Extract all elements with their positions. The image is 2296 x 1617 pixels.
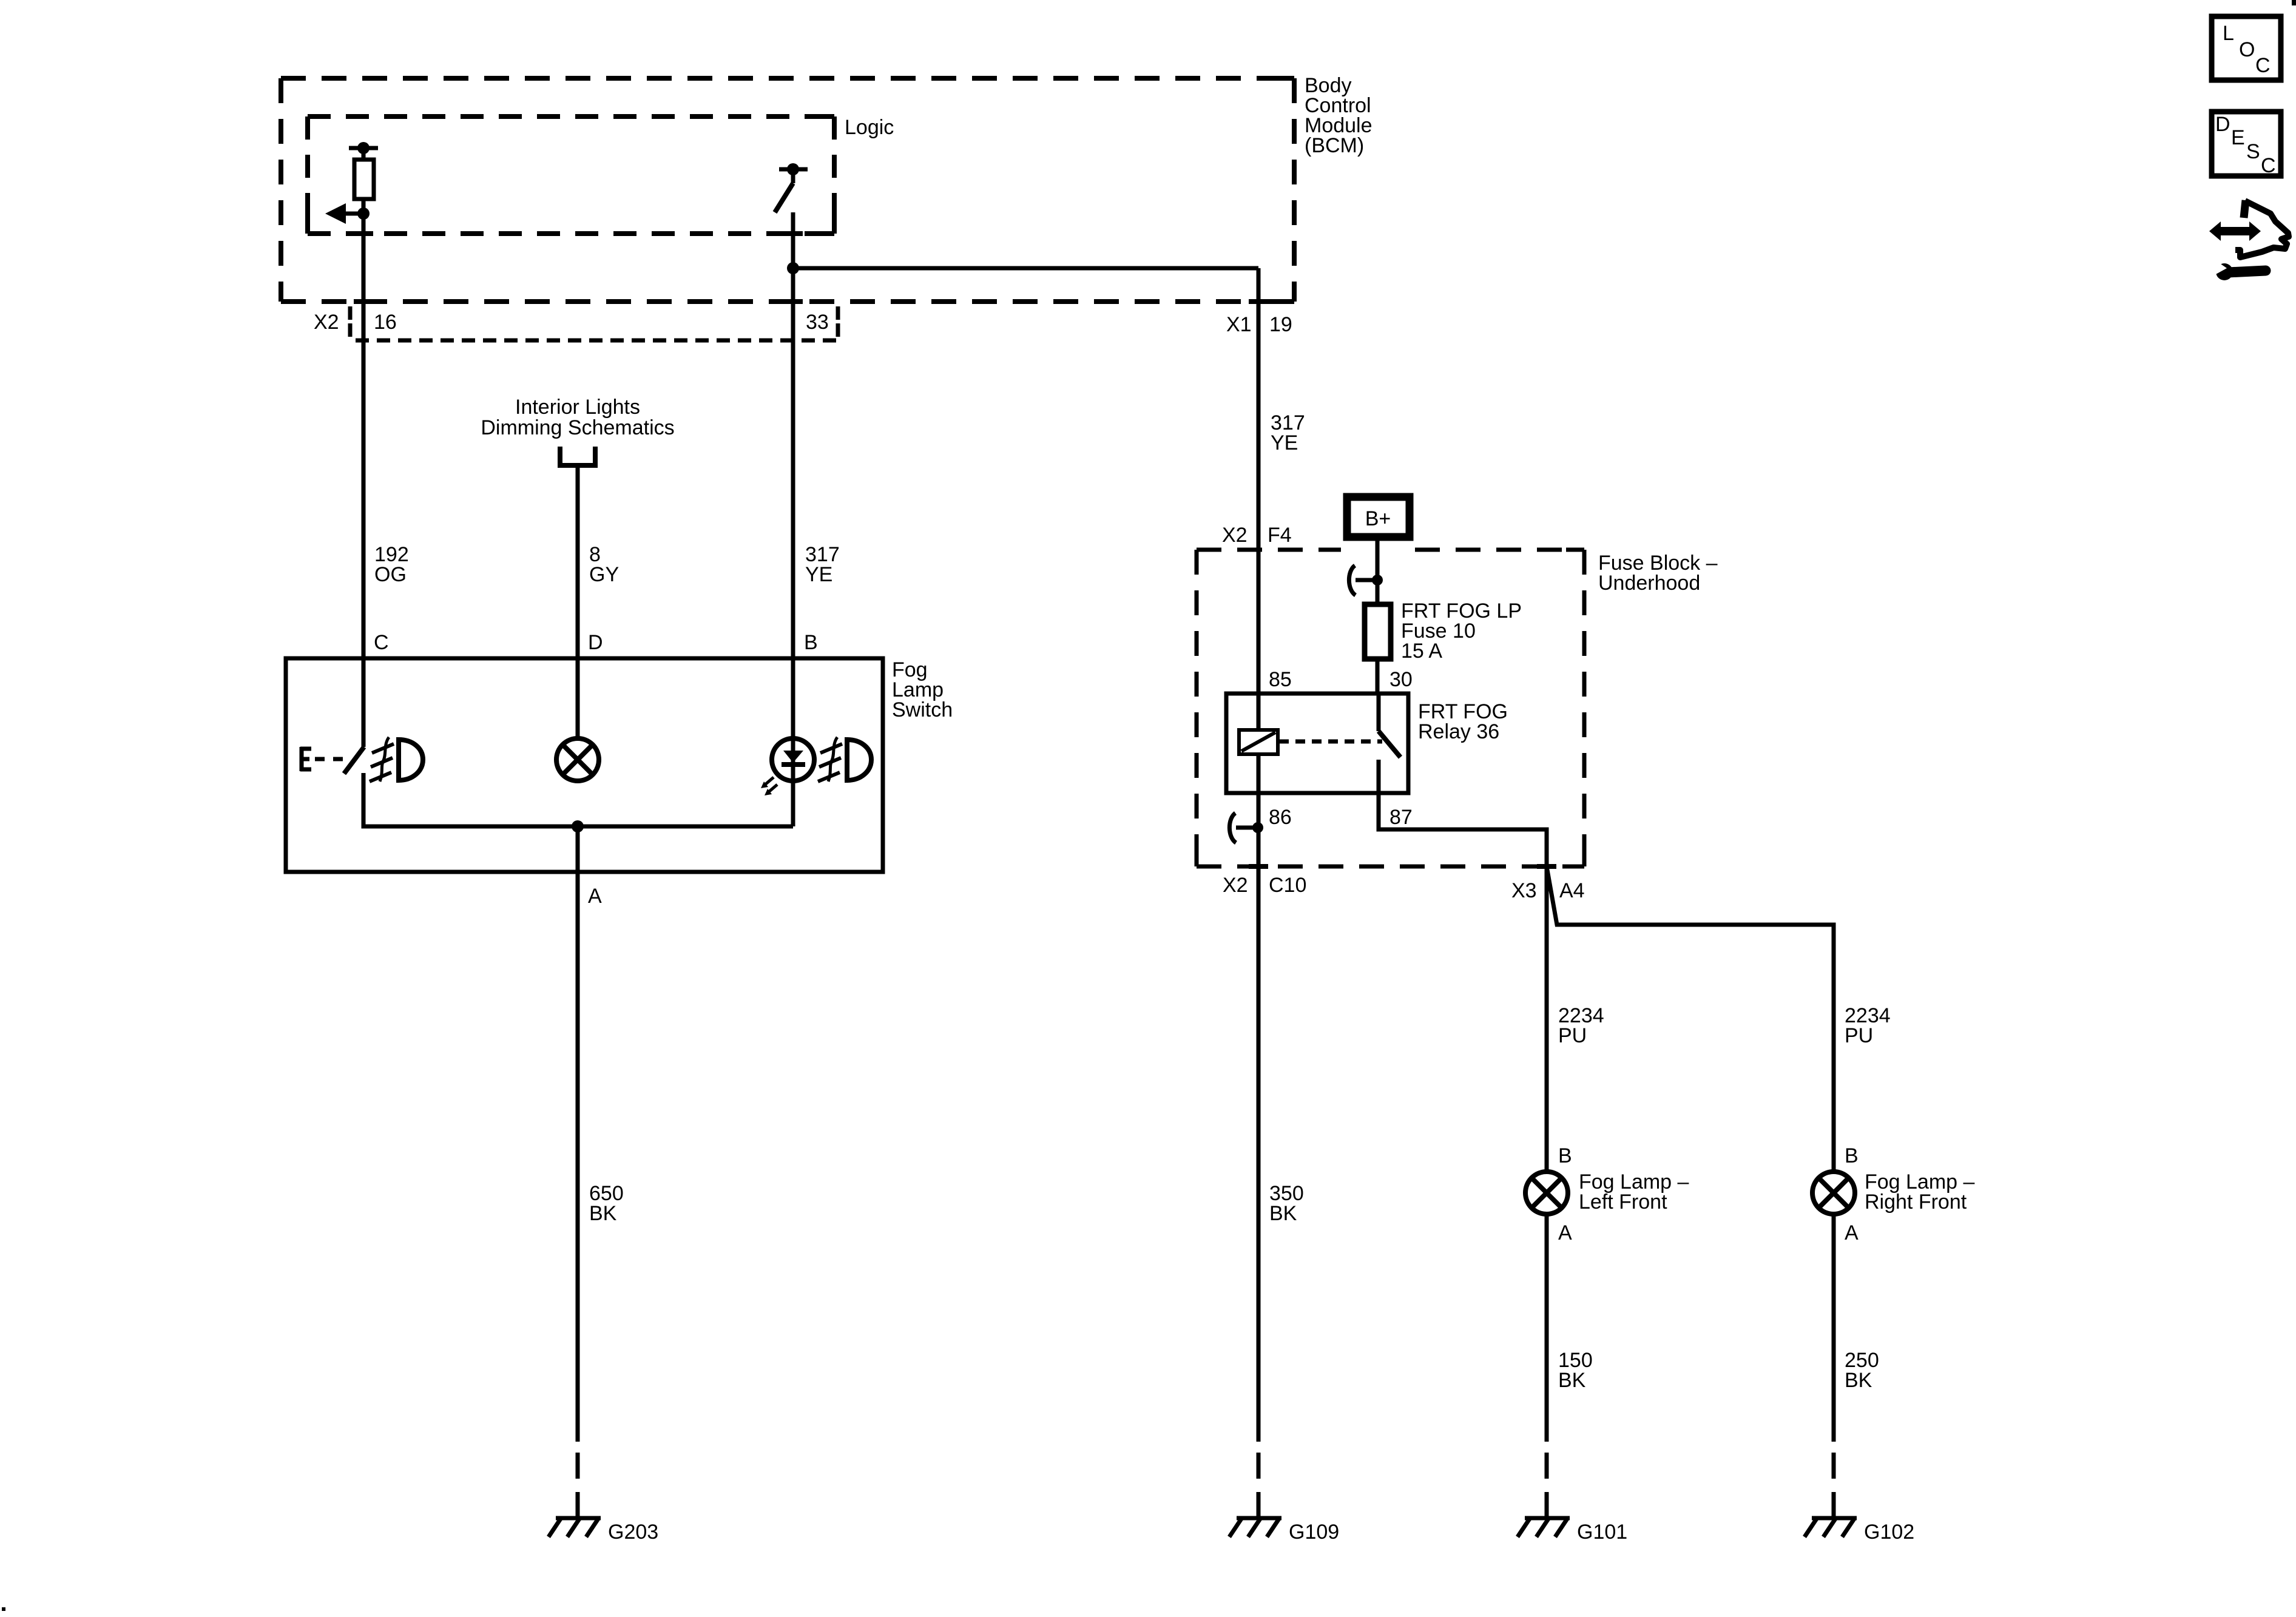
svg-text:F4: F4 [1268,524,1292,547]
relay FRT FOG Relay 36 box [1226,694,1408,793]
wire resistor top stub [362,148,366,160]
clip connector at 86 [1229,813,1263,843]
Logic box corner dashes [308,116,834,234]
svg-text:GY: GY [589,563,619,586]
ground G101 [1518,1518,1570,1537]
label 150 BK [1558,1349,1593,1392]
resistor R (BCM internal) [354,160,374,199]
wire 250 dashed to ground [1832,1453,1836,1518]
svg-text:A: A [1845,1221,1859,1244]
svg-text:B: B [804,631,818,654]
wire 350 dashed to ground [1257,1453,1261,1518]
Fog Lamp Switch box [286,658,883,872]
relay blade [1379,731,1400,757]
svg-text:B+: B+ [1365,507,1391,530]
wire 87 L to A4 [1379,793,1547,866]
Fuse Block label [1598,552,1718,595]
fuse label [1401,599,1522,663]
Fog Lamp Switch label [892,658,953,721]
clip connector at fuse [1349,565,1383,595]
label Fog Lamp Right Front [1865,1170,1975,1214]
svg-text:B: B [1558,1144,1572,1167]
svg-text:E: E [2231,126,2245,149]
wire left lamp vertical (2234 PU) [1545,866,1549,1172]
BCM box corner dashes [281,78,1294,302]
33 separator dashes [836,306,840,337]
svg-text:Logic: Logic [845,116,894,139]
svg-text:YE: YE [1271,431,1298,454]
ground G203 [549,1518,601,1537]
svg-text:X3: X3 [1511,879,1537,902]
svg-text:BK: BK [589,1202,617,1225]
node at 33/X1 branch [787,262,799,274]
wire below resistor [362,199,366,214]
BCM label [1305,74,1373,157]
relay label [1418,700,1508,743]
svg-text:X2: X2 [1223,874,1248,897]
svg-text:C: C [2261,154,2276,177]
switch terminal tick (BCM internal switch) [779,167,808,172]
tick 86 wire at fuse block bottom [1249,864,1268,869]
fog switch lower contact L wire [363,773,793,826]
off-page bracket [560,447,595,465]
svg-text:YE: YE [805,563,832,586]
svg-text:19: 19 [1269,313,1292,336]
LED (pin B) [761,738,814,826]
fog lamp icon (right of B) [818,737,871,781]
tick pin33 at BCM bottom [783,299,803,304]
svg-text:X1: X1 [1226,313,1252,336]
label 192 OG [374,543,409,586]
ground G109 [1229,1518,1281,1537]
svg-text:Underhood: Underhood [1598,572,1700,595]
svg-text:O: O [2239,38,2255,61]
actuator link dashes [315,757,343,761]
wire B+ down to fuse [1376,541,1380,604]
node at arrow junction [357,208,370,220]
wire pin D vertical (8 GY) [576,465,580,739]
DESC legend box [2212,112,2281,177]
svg-text:D: D [588,631,603,654]
label 8 GY [589,543,619,586]
wire left lamp down (150 BK) [1545,1214,1549,1442]
Fog Lamp - Left Front symbol [1525,1172,1568,1214]
wire A dashed to ground [576,1453,580,1518]
Fog Lamp - Right Front symbol [1812,1172,1855,1214]
svg-text:G102: G102 [1864,1521,1914,1544]
svg-text:X2: X2 [1222,524,1248,547]
relay 30 stub [1377,694,1381,731]
svg-text:G203: G203 [608,1521,658,1544]
Fuse Block - Underhood dashed box [1197,550,1584,866]
svg-text:Dimming Schematics: Dimming Schematics [481,416,674,439]
tick pin33 at logic box bottom [783,231,803,236]
indicator lamp (pin D) [556,738,599,781]
wire X1 19 vertical down [1257,268,1261,1442]
X2 separator dashes [348,306,353,337]
wire branch diagonal to right lamp [1547,866,1834,1172]
service icon: double arrow, outline arrow, wrench [2209,200,2289,280]
svg-text:C: C [374,631,389,654]
svg-text:Interior Lights: Interior Lights [515,396,640,419]
ground G102 [1805,1518,1857,1537]
wire 150 dashed to ground [1545,1453,1549,1518]
switch E actuator symbol [300,747,311,771]
svg-text:85: 85 [1269,668,1292,691]
svg-text:PU: PU [1558,1024,1587,1047]
fog switch blade [344,747,364,774]
wire pin16 vertical (192 OG) [362,214,366,747]
tick A4 at fuse block bottom [1537,864,1556,869]
svg-text:Left Front: Left Front [1579,1190,1667,1214]
svg-text:B: B [1845,1144,1859,1167]
svg-text:A4: A4 [1559,879,1585,902]
label 317 YE (pin 33 wire) [805,543,840,586]
fuse FRT FOG LP [1365,604,1391,659]
svg-text:C10: C10 [1269,874,1306,897]
wire BCM internal horizontal to X1 19 [793,266,1258,271]
arrow to left (signal out) [345,212,363,216]
svg-text:(BCM): (BCM) [1305,134,1364,157]
B+ box [1347,497,1410,537]
resistor terminal tick [349,146,378,150]
label 250 BK [1845,1349,1879,1392]
relay 87 stub [1377,760,1381,793]
relay link dashed [1279,740,1382,744]
node at resistor top [357,142,370,154]
switch blade (BCM internal switch) [775,183,793,212]
svg-text:Right Front: Right Front [1865,1190,1967,1214]
Fuse Block box corner dashes [1197,550,1584,866]
tick pin16 at logic box bottom [354,231,373,236]
switch top stub [791,169,795,183]
node at switch top [787,163,799,175]
wire fuse to relay 30 [1376,659,1380,694]
svg-text:Switch: Switch [892,698,953,721]
X2 connector band dotted line [356,339,838,343]
svg-text:BK: BK [1269,1202,1297,1225]
svg-text:PU: PU [1845,1024,1873,1047]
svg-text:S: S [2246,140,2260,163]
fog lamp icon (left of C) [370,737,423,781]
svg-text:X2: X2 [314,311,339,334]
Interior Lights Dimming Schematics note [481,396,674,439]
svg-text:L: L [2223,22,2234,45]
svg-text:86: 86 [1269,806,1292,829]
label Fog Lamp Left Front [1579,1170,1689,1214]
svg-text:C: C [2255,54,2271,77]
svg-text:16: 16 [374,311,397,334]
label 350 BK [1269,1182,1304,1225]
LOC legend box [2212,16,2281,80]
label 317 YE (X1 19 wire) [1271,411,1305,454]
svg-text:15 A: 15 A [1401,640,1442,663]
svg-text:Relay 36: Relay 36 [1418,720,1499,743]
svg-text:A: A [588,885,602,908]
svg-text:D: D [2215,113,2230,136]
tick X1 wire at BCM bottom [1249,299,1268,304]
svg-text:30: 30 [1389,668,1413,691]
svg-text:BK: BK [1845,1369,1872,1392]
node at lamp A junction [572,820,584,832]
svg-text:33: 33 [806,311,829,334]
tick pin16 at BCM bottom [354,299,373,304]
svg-text:OG: OG [374,563,407,586]
Logic dashed box [308,116,834,234]
wire right lamp down (250 BK) [1832,1214,1836,1442]
svg-text:A: A [1558,1221,1572,1244]
Body Control Module (BCM) dashed box [281,78,1294,302]
svg-text:87: 87 [1389,806,1413,829]
svg-text:G101: G101 [1577,1521,1627,1544]
label 650 BK [589,1182,624,1225]
wire pin33 vertical (317 YE) [791,212,795,739]
wire pin A vertical (650 BK) [576,826,580,1442]
relay coil [1239,730,1278,754]
label 2234 PU (left) [1558,1004,1604,1047]
wire 86 down (350 BK) [1257,793,1261,1442]
page corner artifacts [2292,0,2296,5]
svg-text:G109: G109 [1289,1521,1339,1544]
label 2234 PU (right) [1845,1004,1891,1047]
svg-text:BK: BK [1558,1369,1586,1392]
